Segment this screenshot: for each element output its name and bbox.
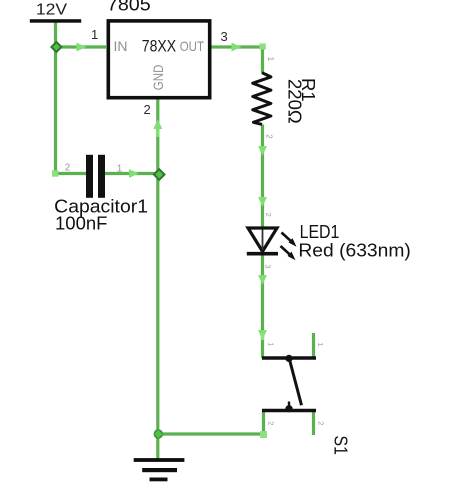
current arrow up on GND wire (153, 119, 162, 129)
svg-text:Red (633nm): Red (633nm) (298, 239, 410, 260)
current arrow down on LED-switch wire lower (258, 330, 267, 340)
current arrow on capacitor wire (129, 169, 139, 178)
svg-text:2: 2 (264, 134, 273, 139)
svg-text:1: 1 (117, 164, 123, 175)
switch common contact dot top (285, 355, 292, 362)
wire LED bottom to switch top-left terminal (261, 254, 264, 358)
wire 12V junction to regulator IN pin (56, 45, 107, 48)
wire switch bottom-right terminal (312, 411, 315, 435)
svg-text:7805: 7805 (107, 0, 151, 15)
wire switch bottom-left terminal (262, 411, 265, 434)
wire regulator GND pin down to ground junction (156, 99, 159, 434)
switch contact dot bottom with stub (285, 402, 292, 413)
wire switch top-right terminal (312, 333, 315, 358)
svg-text:2: 2 (144, 102, 151, 117)
terminal highlight capacitor-left corner (52, 170, 58, 176)
current arrow on OUT wire (232, 43, 242, 52)
svg-text:S1: S1 (331, 436, 352, 455)
pin stub inside regulator IN (111, 46, 116, 49)
wire capacitor row horizontal left segment (54, 172, 87, 175)
ground symbol (134, 458, 185, 481)
pin stub inside regulator OUT (202, 46, 207, 49)
wire capacitor right plate to center junction (104, 172, 159, 175)
terminal highlight ground wire corner (260, 431, 267, 438)
svg-text:3: 3 (221, 29, 228, 44)
svg-text:IN: IN (114, 38, 128, 54)
LED emission arrow 2 (281, 246, 296, 260)
current arrow on IN wire (77, 43, 87, 52)
current arrow down on LED-switch wire upper (258, 275, 267, 285)
svg-text:1: 1 (91, 27, 98, 42)
svg-text:1: 1 (267, 342, 276, 346)
capacitor C1 left plate (86, 155, 93, 198)
svg-text:2: 2 (317, 421, 326, 425)
wire 12V rail down to capacitor row (54, 21, 57, 174)
current arrow down on resistor-LED wire lower (258, 197, 267, 207)
wire ground junction to switch bottom-left terminal (158, 432, 264, 435)
svg-text:1: 1 (266, 57, 275, 62)
svg-text:OUT: OUT (180, 38, 205, 54)
svg-text:100nF: 100nF (55, 212, 107, 233)
wire ground junction down to ground symbol (156, 434, 159, 459)
LED emission arrow 1 (282, 233, 297, 247)
svg-text:1: 1 (316, 342, 325, 346)
terminal highlight resistor-top corner (259, 43, 265, 49)
switch lever arm (290, 360, 302, 406)
svg-text:12V: 12V (36, 2, 68, 19)
current arrow down on resistor-LED wire upper (258, 146, 267, 156)
svg-text:2: 2 (65, 163, 71, 174)
junction node capacitor/GND net (154, 169, 165, 180)
wire regulator OUT pin to resistor top (211, 47, 263, 73)
power rail bar (30, 19, 81, 23)
capacitor C1 right plate (98, 155, 105, 198)
svg-text:2: 2 (264, 213, 273, 217)
wire resistor bottom to LED top (261, 125, 264, 228)
resistor R1 zigzag (253, 73, 271, 125)
LED cathode bar (247, 252, 278, 256)
voltage regulator U1 7805 body (108, 21, 209, 98)
LED internal wire line (262, 230, 264, 251)
LED LED1 triangle (248, 228, 277, 252)
junction node 12V (51, 42, 61, 52)
svg-text:220Ω: 220Ω (285, 79, 306, 124)
junction node ground (154, 429, 163, 438)
terminal highlight switch top-left (261, 333, 264, 340)
svg-text:78XX: 78XX (142, 37, 176, 56)
switch S1 bottom bar (262, 409, 316, 412)
svg-text:2: 2 (267, 421, 276, 425)
svg-text:3: 3 (264, 264, 273, 268)
svg-text:GND: GND (150, 65, 166, 91)
switch S1 top bar (262, 356, 316, 359)
